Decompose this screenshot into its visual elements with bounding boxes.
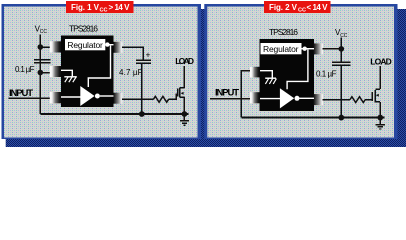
wire: LOAD to drain (left) [183,66,185,88]
node junction dot C2/rail [139,111,145,117]
pin GND (right IC, left top) [250,67,260,78]
pin REG_OUT (left IC, right top) [114,42,123,53]
wire: GND pin loop to rail (right) [241,71,251,118]
svg-text:Fig. 2 V: Fig. 2 V [269,3,298,12]
svg-text:> 14 V: > 14 V [109,3,131,12]
node junction dot Vcc (left) [38,44,44,50]
node VCC label (left) [35,25,48,36]
ground symbol (right) [376,118,385,129]
pin GND (left IC, pin 2) [50,66,61,77]
wire: internal regulator-to-driver supply (left) [88,46,110,88]
left card background [4,7,198,138]
svg-text:LOAD: LOAD [370,56,392,66]
capacitor C2 4.7 uF plates (left) [136,59,151,61]
svg-text:TPS2816: TPS2816 [269,27,298,37]
svg-text:CC: CC [298,8,306,14]
wire: C2 bottom lead to rail [141,64,143,114]
wire: driver out to pin (left, white) [100,95,114,97]
wire: LOAD to drain (right) [379,66,381,89]
wire: source to rail (left) [183,97,185,114]
right card background [207,7,394,138]
svg-text:TPS2816: TPS2816 [69,23,98,33]
op-amp U2 TPS2816 IC body (right) [260,39,315,111]
transistor driver inverter triangle (left) [80,86,94,106]
wire: IN pin to driver (left, white) [61,96,81,98]
op-amp U1 TPS2816 IC body (left) [61,36,114,108]
resistor R1 gate resistor (left) [153,96,168,102]
wire: resistor to MOSFET gate (left) [169,94,178,99]
transistor Q2 N-MOSFET (right) [372,89,380,102]
title Fig.1 [66,1,134,14]
regulator block (left) [65,39,105,50]
node junction dot source/rail (left) [182,111,188,117]
wire: Vcc down to node (right) [340,38,342,49]
left card drop shadow [6,9,210,147]
svg-text:INPUT: INPUT [215,87,239,98]
wire: internal regulator-to-driver supply (right) [287,50,308,90]
capacitor C1 0.1 uF plates (left) [34,59,50,61]
node junction dot C3/rail (right) [338,115,344,121]
wire: reg-out pin to Vcc node (right) [323,48,342,50]
svg-text:0.1 µF: 0.1 µF [316,69,337,78]
pin DRV_OUT (right IC, right bottom) [314,94,324,105]
wire: resistor to MOSFET gate (right) [365,99,372,101]
node junction dot GND-cap (left) [38,70,44,76]
wire: driver out to pin (right, white) [300,97,315,99]
node internal reg-out dot (left, white) [105,44,113,46]
transistor Q1 N-MOSFET (left) [178,87,185,97]
wire: bottom ground rail (left) [40,113,188,115]
pin IN (left IC, pin 3) [50,92,61,103]
wire: INPUT (left) [9,97,55,99]
wire: GND dot to pin 2 [40,72,54,74]
wire: INPUT (right) [210,98,252,100]
right card border [204,4,397,139]
wire: source to rail (right) [379,102,381,118]
wire: Vcc dot to pin 1 [40,46,54,48]
node VCC label (right) [335,28,348,39]
ground symbol (left) [180,114,189,125]
svg-text:4.7 µF: 4.7 µF [119,68,143,77]
wire: Vcc column / ground drop (left) [39,35,41,115]
pin VCC (left IC, pin 1) [50,41,61,52]
pin DRV_OUT (left IC, right bottom) [114,93,123,104]
pin IN (right IC, left bottom) [250,92,260,103]
svg-text:INPUT: INPUT [9,88,33,99]
wire: IN pin to driver (right, white) [260,98,281,100]
node junction dot source/rail (right) [377,115,383,121]
svg-text:+: + [146,50,151,59]
wire: bottom ground rail (right) [241,117,384,119]
resistor R2 gate resistor (right) [350,97,365,103]
transistor driver inverter triangle (right) [280,88,294,108]
svg-text:Regulator: Regulator [67,40,103,50]
wire: Vcc node through C3 to rail (right) [340,49,342,62]
ground internal chassis symbol (right) [260,71,272,79]
svg-text:CC: CC [40,29,48,35]
left card border [2,4,202,139]
svg-text:LOAD: LOAD [175,56,194,66]
wire: gate drive to resistor (left) [122,98,153,100]
wire: C3 bottom lead to rail (right) [340,66,342,118]
regulator block (right) [261,43,302,54]
ground internal chassis symbol (left) [61,70,72,77]
svg-text:Regulator: Regulator [263,44,299,54]
node internal reg-out dot (right, white) [302,48,315,50]
title Fig.2 [264,1,331,14]
pin REG_OUT (right IC, right top) [314,43,324,54]
svg-text:Fig. 1 V: Fig. 1 V [71,3,100,12]
wire: gate drive to resistor (right) [323,99,351,101]
capacitor C3 0.1 uF plates (right) [332,61,350,63]
svg-text:0.1 µF: 0.1 µF [15,65,35,74]
right card drop shadow [209,9,406,147]
svg-text:< 14 V: < 14 V [307,3,329,12]
node junction dot Vcc (right) [339,46,345,52]
wire: reg-out to bulk cap (left) [122,47,143,59]
svg-text:CC: CC [100,8,108,14]
